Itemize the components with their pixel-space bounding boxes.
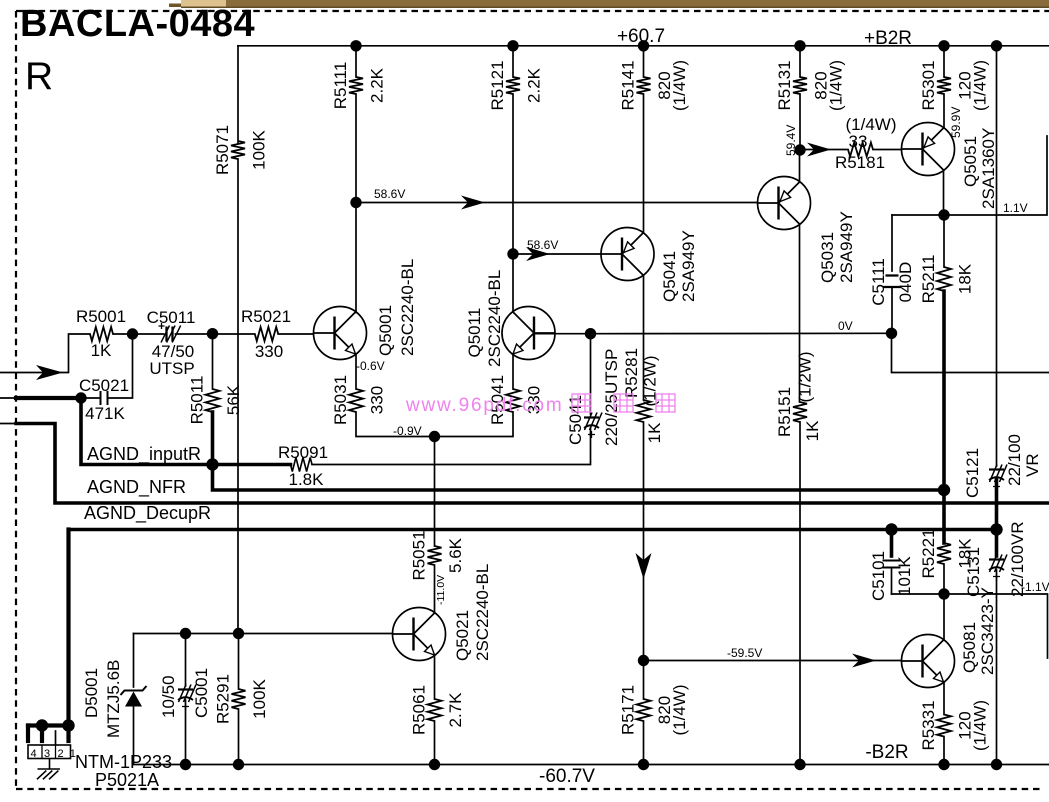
wire R5001 to C5011 <box>113 333 164 335</box>
svg-text:2.2K: 2.2K <box>525 67 544 103</box>
svg-text:R5181: R5181 <box>835 153 885 172</box>
capacitor C5111 <box>883 276 901 288</box>
svg-text:Q5051: Q5051 <box>961 136 980 187</box>
wire +60.7/+B2R top rail <box>238 45 1049 47</box>
junction diff tail <box>429 431 440 442</box>
svg-text:(1/2W): (1/2W) <box>641 356 660 407</box>
svg-text:-0.6V: -0.6V <box>356 359 385 373</box>
voltage label -1.1V <box>1021 580 1049 594</box>
label Q5041 <box>660 251 679 302</box>
junction rail R5291 <box>233 759 244 770</box>
label R5151 value 1K <box>803 420 822 441</box>
junction 58.6V node 2 <box>507 248 518 259</box>
label C5011 value 47/50 <box>152 342 195 361</box>
svg-text:D5001: D5001 <box>82 668 101 718</box>
flow arrow down on R5281 column <box>636 553 652 579</box>
wire AGND_DecupR drop to connector <box>66 530 70 726</box>
wire R5211 bottom thick <box>942 291 946 490</box>
label R5291 <box>214 674 270 724</box>
svg-text:59.9V: 59.9V <box>949 107 963 138</box>
wire C5131 column to rail <box>996 594 998 765</box>
wire AGND_DecupR <box>69 528 997 532</box>
label C5121 <box>963 448 982 498</box>
transistor Q5001 <box>314 307 367 360</box>
svg-text:(1/4W): (1/4W) <box>670 685 689 736</box>
wire R5131 top lead <box>799 46 801 77</box>
svg-text:C5001: C5001 <box>192 668 211 718</box>
svg-text:Q5021: Q5021 <box>453 610 472 661</box>
wire AGND_inputR <box>81 398 291 465</box>
svg-text:C5121: C5121 <box>963 448 982 498</box>
label D5001 <box>82 668 101 718</box>
label R5031 <box>331 375 387 425</box>
svg-text:AGND_NFR: AGND_NFR <box>87 477 186 498</box>
resistor R5111 <box>349 77 363 94</box>
wire C5041 down and left to R5091 <box>312 428 591 465</box>
label Q5051 type 2SA1360Y <box>979 128 998 209</box>
ground symbol <box>37 759 60 780</box>
wire Q5041 collector down to R5281 <box>643 275 645 400</box>
junction DecupR / C5121 <box>990 523 1002 535</box>
svg-text:R5091: R5091 <box>278 443 328 462</box>
wire Q5031 emitter up <box>799 150 801 182</box>
label R5281 <box>622 348 641 398</box>
transistor Q5031 <box>758 177 811 230</box>
wire R5041 to tail <box>435 412 514 437</box>
junction 0V / C5111 <box>886 328 897 339</box>
wire pin4 stub <box>26 726 30 742</box>
svg-text:R5121: R5121 <box>488 60 507 110</box>
wire Q5011 base lead <box>534 333 591 335</box>
svg-text:R5141: R5141 <box>619 60 638 110</box>
label Q5081 type 2SC3423-Y <box>978 587 997 675</box>
svg-text:C5021: C5021 <box>79 376 129 395</box>
junction NFB / R5211 <box>938 484 950 496</box>
junction rail R5061 <box>429 759 440 770</box>
svg-text:2.2K: 2.2K <box>368 67 387 103</box>
pin number 3 <box>44 748 50 760</box>
svg-text:(1/4W): (1/4W) <box>971 700 990 751</box>
svg-text:-11.0V: -11.0V <box>435 575 447 605</box>
junction top rail R5111 <box>350 40 361 51</box>
voltage label 58.6V 2 <box>527 238 558 252</box>
wire C5111 bottom lead <box>891 287 893 333</box>
voltage label 1.1V <box>1003 201 1028 215</box>
svg-text:C5041: C5041 <box>566 395 585 445</box>
wire R5121 top lead <box>512 46 514 77</box>
svg-text:Q5081: Q5081 <box>960 622 979 673</box>
svg-text:100K: 100K <box>250 129 269 169</box>
svg-text:2SC2240-BL: 2SC2240-BL <box>473 564 492 661</box>
wire R5171 leads <box>643 661 645 700</box>
junction AGND_inputR / R5011 <box>206 458 218 470</box>
title BACLA-0484 <box>20 3 255 45</box>
svg-text:MTZJ5.6B: MTZJ5.6B <box>104 660 123 738</box>
wire R5021 to Q5001 base <box>278 333 313 335</box>
label Q5021 type 2SC2240-BL <box>473 564 492 661</box>
label R5211 <box>919 255 975 304</box>
wire C5001 bottom lead <box>185 700 187 765</box>
svg-text:BACLA-0484: BACLA-0484 <box>20 3 255 45</box>
junction -59.5V / R5171 <box>638 655 649 666</box>
wire 58.6V to Q5041 base <box>513 253 601 255</box>
voltage label 0V <box>838 319 853 333</box>
label R5011 <box>188 376 244 425</box>
svg-text:R5001: R5001 <box>76 307 126 326</box>
junction top rail R5141 <box>638 40 649 51</box>
net label AGND_NFR <box>87 477 186 498</box>
junction rail C5001 <box>180 759 191 770</box>
transistor Q5051 <box>902 123 955 176</box>
svg-text:AGND_inputR: AGND_inputR <box>87 444 201 465</box>
wire pin3 stub <box>40 726 44 742</box>
label R5001 <box>76 307 126 326</box>
label R5331 <box>919 700 990 751</box>
svg-text:(1/4W): (1/4W) <box>670 60 689 111</box>
label Q5011 type 2SC2240-BL <box>485 270 504 367</box>
svg-text:3: 3 <box>44 748 50 760</box>
label Q5031 type 2SA949Y <box>837 211 856 283</box>
capacitor C5101 <box>883 561 901 568</box>
label C5011 value UTSP <box>149 359 194 378</box>
svg-text:2SA1360Y: 2SA1360Y <box>979 128 998 209</box>
svg-text:2SA949Y: 2SA949Y <box>837 211 856 283</box>
label C5021 value 471K <box>85 404 125 423</box>
svg-text:2.7K: 2.7K <box>446 692 465 728</box>
wire R5301 bottom to Q5051 emitter <box>943 94 945 128</box>
svg-text:-60.7V: -60.7V <box>539 766 595 787</box>
svg-text:(1/2W): (1/2W) <box>796 352 815 403</box>
wire R5171 bottom lead <box>643 721 645 765</box>
label R5221 <box>919 528 975 578</box>
channel letter R <box>25 55 53 98</box>
pin number 1 <box>70 748 76 760</box>
label R5091 <box>278 443 328 462</box>
capacitor C5001 <box>178 685 196 711</box>
wire R5071 bottom to Q5021 base node <box>237 159 239 634</box>
junction top rail R5301 <box>938 40 949 51</box>
label R5281 value 1K <box>645 422 664 443</box>
svg-text:-1.1V: -1.1V <box>1021 580 1049 594</box>
svg-text:R5171: R5171 <box>619 685 638 735</box>
resistor R5031 <box>349 389 363 412</box>
wire C5121 bottom lead thick <box>995 480 999 530</box>
label Q5001 type 2SC2240-BL <box>398 259 417 356</box>
label C5121 value 22/100 <box>1005 434 1024 486</box>
resistor R5331 <box>937 715 951 737</box>
wire R5141 bottom to Q5041 emitter <box>643 94 645 233</box>
wire R5211 top lead <box>943 215 945 267</box>
wire R5291 top lead <box>238 634 240 690</box>
junction top rail R5121 <box>507 40 518 51</box>
resistor R5011 <box>206 389 220 412</box>
junction top rail right column <box>991 40 1002 51</box>
junction rail R5151 <box>794 759 805 770</box>
junction 59.4V node <box>794 144 805 155</box>
svg-text:220/25UTSP: 220/25UTSP <box>602 349 621 446</box>
label R5181 wattage <box>846 115 897 134</box>
label C5001 value 10/50 <box>159 675 178 718</box>
wire NFB line <box>213 465 945 491</box>
flow arrow -59.5V <box>852 654 876 668</box>
wire R5071 column top <box>237 46 239 143</box>
flow arrow input <box>36 365 63 380</box>
wire R5211/R5221 thick link <box>942 490 946 543</box>
svg-text:1.1V: 1.1V <box>1003 201 1028 215</box>
svg-text:58.6V: 58.6V <box>374 187 405 201</box>
svg-text:33: 33 <box>849 132 868 151</box>
svg-text:VR: VR <box>1023 453 1042 477</box>
wire R5011 bottom thick <box>211 412 215 465</box>
svg-text:R5071: R5071 <box>213 125 232 175</box>
junction rail R5171 <box>638 759 649 770</box>
voltage label 58.6V <box>374 187 405 201</box>
svg-text:C5111: C5111 <box>869 258 888 306</box>
svg-text:R5131: R5131 <box>775 60 794 110</box>
wire -59.5V line <box>644 660 902 662</box>
wire -60.7V/-B2R bottom rail <box>134 764 1049 766</box>
svg-text:2SC2240-BL: 2SC2240-BL <box>485 270 504 367</box>
svg-text:P5021A: P5021A <box>95 770 159 790</box>
wire C5101 top lead thick <box>890 530 894 557</box>
label C5101 value 101K <box>895 556 914 596</box>
wire AGND_NFR <box>16 424 1049 504</box>
junction -1.1V / R5221 / Q5081 <box>938 588 949 599</box>
wire D5001 column <box>133 634 135 688</box>
junction top rail R5131 <box>794 40 805 51</box>
svg-text:1K: 1K <box>803 420 822 441</box>
resistor R5131 <box>793 77 807 94</box>
svg-text:R5301: R5301 <box>919 60 938 110</box>
capacitor C5121 <box>989 465 1007 491</box>
transistor Q5041 <box>601 228 654 281</box>
svg-text:330: 330 <box>255 342 283 361</box>
wire C5021 left lead <box>81 397 101 399</box>
wire connector bus <box>28 723 69 727</box>
label R5041 <box>488 375 544 425</box>
wire R5111 top lead <box>355 46 357 77</box>
label R5151 wattage <box>796 352 815 403</box>
label C5111 <box>869 258 888 306</box>
pin number 2 <box>57 748 63 760</box>
wire Q5021 emitter to R5061 <box>434 655 436 699</box>
junction connector pin1 <box>62 719 74 731</box>
label R5171 <box>619 685 690 736</box>
junction Q5011 base node <box>585 328 596 339</box>
svg-text:(1/4W): (1/4W) <box>971 60 990 111</box>
label C5101 <box>869 551 888 601</box>
label C5021 <box>79 376 129 395</box>
wire 0V line <box>591 332 892 334</box>
svg-text:1.8K: 1.8K <box>289 470 325 489</box>
wire Q5011 base down to C5041 <box>590 334 592 414</box>
wire R5141 top lead <box>643 46 645 77</box>
wire C5101 bottom lead <box>891 568 893 595</box>
svg-text:330: 330 <box>368 386 387 414</box>
svg-text:0V: 0V <box>838 319 853 333</box>
capacitor C5131 <box>989 555 1007 581</box>
pin number 4 <box>30 748 36 760</box>
label R5121 <box>488 60 544 110</box>
watermark <box>405 394 675 416</box>
resistor R5301 <box>937 77 951 94</box>
connector NTM-1P233 body <box>28 745 71 759</box>
label Q5051 <box>961 136 980 187</box>
label R5141 <box>619 60 690 111</box>
resistor R5281 <box>637 400 651 422</box>
label D5001 type MTZJ5.6B <box>104 660 123 738</box>
voltage label -0.6V <box>356 359 385 373</box>
wire R5281 down to -59.5V node <box>643 422 645 661</box>
resistor R5221 <box>937 543 951 564</box>
svg-text:R5291: R5291 <box>214 674 233 724</box>
junction C5011/R5011/R5021 <box>207 328 218 339</box>
junction Q5051 collector / R5211 <box>938 209 949 220</box>
flow arrow 58.6V 2 <box>526 247 550 261</box>
wire C5121 top lead <box>996 46 998 466</box>
wire Q5021 base line <box>134 633 393 635</box>
label Q5081 <box>960 622 979 673</box>
svg-text:(1/4W): (1/4W) <box>827 60 846 111</box>
junction 58.6V node <box>350 197 361 208</box>
svg-text:100K: 100K <box>250 678 269 718</box>
svg-text:Q5031: Q5031 <box>818 232 837 283</box>
wire R5011 top lead <box>212 334 214 389</box>
label R5131 <box>775 60 846 111</box>
net label AGND_inputR <box>87 444 201 465</box>
wire Q5081 emitter to R5331 <box>943 682 945 715</box>
wire Q5081 collector up <box>943 594 945 640</box>
wire tail down to R5051 <box>434 437 436 547</box>
wire input line <box>0 334 90 373</box>
svg-text:R5281: R5281 <box>622 348 641 398</box>
junction R5001/C5011/C5021 <box>127 328 138 339</box>
label C5011 <box>147 308 196 327</box>
wire C5131 top lead thick <box>995 530 999 557</box>
svg-text:R5031: R5031 <box>331 375 350 425</box>
resistor R5291 <box>232 689 246 709</box>
wire C5131 bottom lead <box>996 570 998 594</box>
svg-text:101K: 101K <box>895 556 914 596</box>
svg-text:Q5001: Q5001 <box>376 305 395 356</box>
resistor R5051 <box>428 546 442 565</box>
junction rail right column <box>991 759 1002 770</box>
svg-text:UTSP: UTSP <box>149 359 194 378</box>
svg-text:R5011: R5011 <box>188 376 207 425</box>
label R5021 <box>241 307 291 326</box>
wire R5181 to Q5051 base <box>873 149 902 151</box>
svg-text:R5211: R5211 <box>919 255 938 304</box>
resistor R5141 <box>637 77 651 94</box>
resistor R5071 <box>231 141 245 159</box>
wire R5151 down to rail <box>799 422 801 765</box>
capacitor C5041 <box>584 413 602 439</box>
svg-text:-0.9V: -0.9V <box>393 424 422 438</box>
label Q5031 <box>818 232 837 283</box>
label Q5041 type 2SA949Y <box>679 230 698 302</box>
voltage label -0.9V <box>393 424 422 438</box>
label C5131 <box>964 547 983 597</box>
label C5041 <box>566 395 585 445</box>
svg-text:5.6K: 5.6K <box>446 537 465 573</box>
junction rail R5331 <box>938 759 949 770</box>
wire C5021 feed thick <box>16 396 81 400</box>
resistor R5091 <box>291 458 313 472</box>
label C5041 value 220/25UTSP <box>602 349 621 446</box>
resistor R5041 <box>506 389 520 412</box>
junction base line R5291 <box>233 628 244 639</box>
wire R5061 bottom lead <box>434 721 436 765</box>
wire Q5051 collector down <box>943 170 945 215</box>
label Q5021 <box>453 610 472 661</box>
svg-text:R5221: R5221 <box>919 528 938 578</box>
label R5151 <box>775 387 794 437</box>
wire AGND_NFR feed thin <box>0 423 16 425</box>
svg-text:Q5011: Q5011 <box>465 308 484 358</box>
label C5001 <box>192 668 211 718</box>
label P5021A <box>95 770 159 790</box>
svg-text:+B2R: +B2R <box>864 28 912 49</box>
capacitor C5011 <box>159 323 181 343</box>
wire -1.1V line <box>892 594 1048 658</box>
svg-text:AGND_DecupR: AGND_DecupR <box>84 503 211 524</box>
voltage label -59.5V <box>727 646 762 660</box>
wire R5131 bottom to 59.4V node <box>799 94 801 150</box>
junction base line C5001 <box>180 628 191 639</box>
transistor Q5011 <box>502 307 555 360</box>
svg-text:22/100: 22/100 <box>1005 434 1024 486</box>
resistor R5061 <box>428 699 442 721</box>
resistor R5211 <box>937 267 951 291</box>
label R5071 <box>213 125 269 175</box>
svg-text:56K: 56K <box>224 384 243 415</box>
svg-text:2SA949Y: 2SA949Y <box>679 230 698 302</box>
svg-text:471K: 471K <box>85 404 125 423</box>
svg-text:R5111: R5111 <box>331 62 350 110</box>
resistor R5181 <box>848 143 873 157</box>
net label -B2R <box>865 742 908 763</box>
wire pin2 stub <box>55 731 57 745</box>
wire R5051 to Q5021 collector <box>434 565 436 613</box>
wire R5301 top lead <box>943 46 945 77</box>
wire C5021 right lead up <box>108 334 133 398</box>
junction DecupR / C5101 <box>885 523 897 535</box>
wire C5011 to R5021 <box>176 333 255 335</box>
label R5281 wattage <box>641 356 660 407</box>
svg-text:2SC3423-Y: 2SC3423-Y <box>978 587 997 675</box>
wire R5111 bottom to Q5001 collector <box>355 94 357 313</box>
transistor Q5021 <box>393 608 446 661</box>
wire 1.1V line <box>892 136 1047 215</box>
svg-text:18K: 18K <box>956 263 975 294</box>
wire Q5031 collector down to R5151 <box>799 224 801 402</box>
wire R5031 to tail <box>356 412 435 437</box>
label R5181 value 33 <box>849 132 868 151</box>
zener diode D5001 <box>121 686 147 765</box>
junction connector pin3 <box>36 719 48 731</box>
svg-text:R5151: R5151 <box>775 387 794 437</box>
svg-text:R5061: R5061 <box>410 685 429 735</box>
resistor R5121 <box>506 77 520 94</box>
svg-text:1K: 1K <box>91 341 112 360</box>
label R5001 value 1K <box>91 341 112 360</box>
svg-text:-59.5V: -59.5V <box>727 646 762 660</box>
label R5091 value 1.8K <box>289 470 325 489</box>
resistor R5021 <box>255 327 278 341</box>
capacitor C5021 <box>101 391 108 405</box>
wire 58.6V to Q5031 base <box>356 202 758 204</box>
net label AGND_DecupR <box>84 503 211 524</box>
